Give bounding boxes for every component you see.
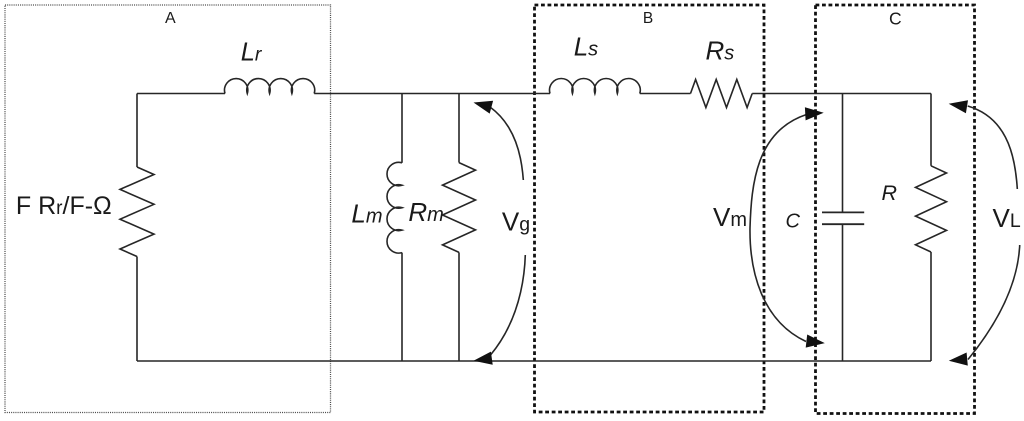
Vm bottom arrowhead	[806, 335, 825, 348]
capacitor C plates	[822, 212, 864, 224]
Vg bottom arrowhead	[474, 352, 493, 365]
Vg top arrowhead	[474, 101, 494, 114]
box A	[5, 5, 331, 413]
inductor Ls	[550, 79, 641, 94]
svg-text:C: C	[889, 8, 902, 28]
wire top middle	[314, 93, 550, 95]
box B	[535, 5, 765, 412]
capacitor C branch top wire	[842, 94, 844, 213]
svg-text:Lr: Lr	[241, 38, 263, 66]
Vm arc	[750, 115, 807, 342]
svg-text:C: C	[786, 210, 801, 232]
Vm top arrowhead	[805, 107, 824, 120]
Vg arc	[490, 107, 525, 355]
resistor Rm branch	[458, 94, 460, 163]
svg-text:R: R	[882, 181, 898, 205]
svg-text:B: B	[643, 10, 653, 27]
wire top right	[752, 93, 931, 95]
VL top arrowhead	[949, 100, 968, 113]
VL bottom arrowhead	[949, 353, 968, 366]
wire between Ls and Rs	[640, 93, 691, 95]
inductor Lm branch	[401, 94, 403, 163]
white mask behind VL label	[986, 189, 1024, 245]
resistor F Rr/F-Omega branch	[136, 94, 138, 168]
resistor R branch	[930, 94, 932, 166]
svg-text:F Rr/F-Ω: F Rr/F-Ω	[16, 192, 112, 220]
capacitor C branch bottom wire	[842, 224, 844, 361]
wire top left	[137, 93, 225, 95]
VL arc	[968, 106, 1020, 360]
resistor Rs	[691, 80, 753, 108]
wire bottom	[137, 360, 931, 362]
box C	[816, 5, 975, 414]
inductor Lr	[225, 79, 315, 94]
svg-text:A: A	[165, 10, 176, 27]
white mask behind Vg label	[497, 180, 531, 255]
